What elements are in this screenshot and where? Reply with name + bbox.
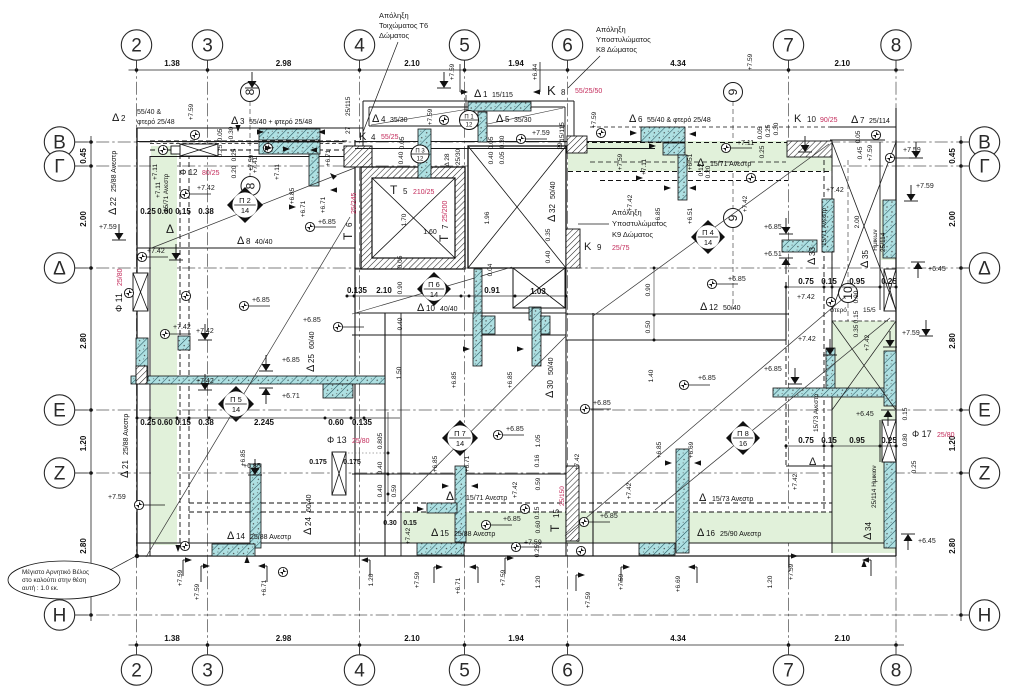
svg-text:+7.42: +7.42 (173, 324, 191, 331)
svg-text:+6.85: +6.85 (507, 371, 514, 388)
svg-text:0.35: 0.35 (853, 324, 860, 337)
svg-text:+7.42: +7.42 (196, 378, 214, 385)
level flag bottom (258, 563, 267, 582)
slab diagonal through Π8 (655, 318, 890, 510)
svg-text:+7.42: +7.42 (627, 194, 634, 211)
svg-text:+6.45: +6.45 (928, 266, 946, 273)
svg-text:+7.42: +7.42 (798, 336, 816, 343)
svg-text:+7.42: +7.42 (197, 185, 215, 192)
column label K4 (359, 131, 399, 143)
svg-text:+7.11: +7.11 (152, 164, 159, 180)
dim 0.175 pair (309, 459, 361, 466)
building outline left wall (136, 128, 138, 556)
corridor line y314 (566, 313, 789, 315)
svg-text:0.05: 0.05 (757, 126, 764, 139)
svg-text:25/80: 25/80 (352, 438, 370, 445)
svg-text:0.40: 0.40 (545, 250, 552, 263)
svg-text:14: 14 (241, 206, 249, 215)
svg-text:+6.85: +6.85 (600, 513, 618, 520)
svg-text:0.60: 0.60 (328, 418, 344, 427)
level marker +6.85 flag right (764, 366, 802, 384)
beam label Δ32 rot (546, 181, 558, 222)
svg-text:0.15: 0.15 (821, 277, 837, 286)
concrete column strip x473 (473, 313, 482, 366)
svg-text:25/88 Ανεστρ: 25/88 Ανεστρ (123, 414, 130, 455)
svg-text:15/71 Ανεστρ: 15/71 Ανεστρ (466, 495, 507, 502)
svg-text:+7.59: +7.59 (414, 571, 421, 588)
beam label Δ5 (496, 113, 532, 125)
svg-text:+7.42: +7.42 (792, 473, 799, 490)
svg-text:0.40: 0.40 (398, 151, 405, 164)
svg-text:0.40: 0.40 (377, 461, 384, 474)
svg-text:9: 9 (726, 88, 740, 95)
column piece solid top-left (171, 146, 180, 154)
svg-text:+6.71: +6.71 (464, 455, 471, 472)
svg-text:5: 5 (459, 661, 470, 682)
svg-text:0.90: 0.90 (645, 283, 652, 296)
svg-text:0.75: 0.75 (798, 277, 814, 286)
dimension line right (948, 136, 963, 621)
level point (181, 291, 190, 300)
svg-text:Ζ: Ζ (979, 464, 991, 485)
svg-text:+6.85: +6.85 (303, 317, 321, 324)
svg-text:15/73 Ανεστρ: 15/73 Ανεστρ (712, 496, 753, 503)
svg-text:0.25: 0.25 (911, 460, 918, 473)
concrete column block bottom wall left (212, 544, 255, 556)
slab symbol Π5 (218, 386, 254, 422)
svg-text:25/150: 25/150 (559, 486, 566, 506)
svg-text:25: 25 (307, 354, 316, 363)
svg-text:9: 9 (597, 243, 602, 252)
svg-text:Δ: Δ (496, 113, 504, 125)
grid axis 6 (552, 30, 582, 685)
arrow (861, 560, 866, 567)
top band line y156 (150, 156, 344, 158)
concrete column strip x822 (822, 199, 834, 252)
svg-text:25/245: 25/245 (351, 192, 358, 214)
svg-text:+6.51: +6.51 (687, 153, 694, 170)
bottom wall inner line (136, 542, 896, 544)
svg-text:0.25: 0.25 (140, 207, 156, 216)
level marker +7.11 (721, 140, 754, 153)
svg-text:14: 14 (704, 238, 712, 247)
slab symbol Π2 (227, 187, 263, 223)
column hatched x136 y366 (136, 366, 147, 384)
svg-text:25/114: 25/114 (869, 118, 890, 125)
svg-text:+6.85: +6.85 (289, 187, 296, 204)
wall line y334 (352, 334, 566, 336)
svg-text:Ε: Ε (978, 401, 991, 422)
column label Φ12 (180, 168, 220, 177)
beam label Δ7 (851, 114, 890, 126)
slab diagonal left big (146, 217, 350, 557)
svg-text:0.75: 0.75 (798, 436, 814, 445)
level marker +7.42 right (798, 136, 844, 194)
svg-text:0.25: 0.25 (881, 436, 897, 445)
svg-text:0.40: 0.40 (488, 151, 495, 164)
arrow (471, 483, 478, 488)
concrete column piece top-left band upper (259, 129, 320, 140)
svg-text:Κ: Κ (547, 83, 556, 98)
svg-text:15: 15 (552, 509, 561, 518)
level marker +6.85 (580, 400, 611, 414)
svg-text:14: 14 (236, 532, 245, 541)
svg-text:Δ: Δ (862, 532, 874, 540)
svg-text:+7.59: +7.59 (108, 494, 126, 501)
svg-text:0.30: 0.30 (499, 135, 506, 148)
svg-text:12: 12 (466, 123, 473, 129)
dim 0.30 0.15 (383, 520, 417, 527)
svg-text:0.15: 0.15 (902, 407, 909, 420)
arrow (461, 89, 468, 94)
level marker +6.85 (493, 426, 524, 440)
arrow (664, 185, 671, 190)
svg-text:Δ: Δ (112, 112, 120, 124)
concrete column piece right upper (883, 200, 896, 258)
svg-text:3: 3 (240, 117, 245, 126)
wall x880 vertical lower (879, 420, 881, 462)
dim line y287 right (785, 286, 898, 289)
level flag bottom (183, 557, 192, 576)
column K9 hatched (566, 229, 580, 268)
svg-text:0.25: 0.25 (765, 124, 772, 137)
svg-text:25/115: 25/115 (345, 96, 352, 116)
beam label Δ21 rot (119, 414, 131, 478)
svg-text:Π 2: Π 2 (239, 196, 251, 205)
grid axis 2 (121, 30, 151, 685)
concrete column piece top-left band lower (259, 142, 320, 154)
elevator shaft interior (372, 178, 455, 258)
beam label Δ15/71 mid (446, 489, 507, 503)
svg-text:4: 4 (371, 133, 376, 142)
svg-text:Π 8: Π 8 (737, 429, 749, 438)
svg-text:Γ: Γ (54, 157, 64, 178)
svg-text:14: 14 (456, 439, 464, 448)
concrete column strip x826 y348 (826, 348, 835, 388)
svg-text:15: 15 (440, 529, 449, 538)
svg-text:1.05: 1.05 (535, 434, 542, 447)
arrow (318, 129, 325, 134)
svg-text:+7.59: +7.59 (99, 224, 117, 231)
svg-text:Δ: Δ (417, 302, 425, 314)
level flag (245, 72, 259, 88)
svg-text:32: 32 (548, 204, 557, 213)
svg-text:Δ: Δ (474, 88, 482, 100)
svg-text:Π 1: Π 1 (464, 115, 474, 121)
svg-text:80/25: 80/25 (202, 170, 220, 177)
svg-text:2.80: 2.80 (948, 538, 957, 554)
svg-text:1.03: 1.03 (530, 287, 546, 296)
svg-text:35/30: 35/30 (514, 117, 532, 124)
svg-text:25/80: 25/80 (117, 268, 124, 286)
concrete column strip x677 (676, 449, 689, 553)
svg-text:Δ: Δ (227, 530, 235, 542)
secondary axis 9 (724, 83, 743, 311)
svg-text:1.20: 1.20 (368, 573, 375, 586)
column K3 hatched top (344, 146, 372, 167)
svg-text:2.10: 2.10 (376, 286, 392, 295)
beam label Δ15/73 (699, 492, 753, 504)
svg-text:+6.85: +6.85 (451, 371, 458, 388)
svg-text:Δ: Δ (629, 113, 637, 125)
svg-text:25/30: 25/30 (455, 148, 462, 165)
svg-text:90/25: 90/25 (820, 117, 838, 124)
svg-text:Δ: Δ (851, 114, 859, 126)
svg-text:+6.51: +6.51 (764, 251, 782, 258)
level marker +6.85 (679, 375, 715, 390)
svg-text:4.34: 4.34 (670, 634, 686, 643)
wall piece below core (355, 268, 465, 270)
level point (263, 143, 272, 152)
svg-text:+7.42: +7.42 (742, 195, 749, 212)
svg-text:25/200: 25/200 (442, 200, 449, 222)
svg-text:+6.71: +6.71 (455, 577, 462, 594)
svg-text:+7.42: +7.42 (196, 328, 214, 335)
wall line x580 (577, 466, 579, 542)
svg-text:2.80: 2.80 (948, 333, 957, 349)
column Φ22 top-left (180, 144, 218, 156)
svg-text:15/5: 15/5 (863, 307, 876, 314)
svg-text:Φ 17: Φ 17 (912, 429, 932, 439)
svg-text:Κ9 Δώματος: Κ9 Δώματος (612, 230, 653, 239)
svg-text:6: 6 (562, 36, 573, 57)
concrete column strip right x884 upper (884, 351, 896, 406)
svg-text:25/114 Ημικιον: 25/114 Ημικιον (871, 465, 878, 508)
arrow (289, 204, 296, 209)
level flag right B (871, 130, 920, 162)
svg-text:0.05: 0.05 (217, 128, 224, 141)
svg-text:Δ: Δ (978, 259, 991, 280)
svg-text:+7.59: +7.59 (585, 591, 592, 608)
level marker +6.85 (303, 317, 364, 332)
svg-text:5: 5 (505, 115, 510, 124)
beam Δ15/71 dashed bottom (189, 503, 832, 512)
svg-text:Π 6: Π 6 (428, 280, 440, 289)
svg-text:0.45: 0.45 (857, 146, 864, 159)
green wall zone right upper (881, 200, 896, 260)
svg-text:0.05: 0.05 (399, 136, 406, 149)
concrete column piece in green (663, 143, 685, 155)
level point (576, 546, 585, 555)
arrow (694, 460, 701, 465)
concrete column piece below core (474, 269, 482, 314)
svg-text:+6.69: +6.69 (688, 441, 695, 458)
svg-text:+6.71: +6.71 (325, 149, 332, 166)
svg-text:Γ: Γ (979, 157, 989, 178)
callout ellipse deflection note (8, 554, 139, 599)
building top edge right part (830, 139, 885, 141)
svg-text:Δ: Δ (166, 222, 174, 236)
arrow (463, 346, 470, 351)
arrow (330, 187, 337, 192)
svg-text:+6.85: +6.85 (252, 297, 270, 304)
svg-text:+7.42: +7.42 (626, 482, 633, 499)
svg-text:16: 16 (706, 529, 715, 538)
level point (596, 128, 605, 137)
column label Φ13 (327, 435, 370, 445)
grid axis Η (44, 600, 999, 630)
beam label Δ10 (417, 302, 458, 314)
concrete column strip x250 (250, 464, 261, 548)
dim vline x388 (387, 412, 390, 502)
svg-text:0.60: 0.60 (157, 418, 173, 427)
svg-text:29: 29 (557, 142, 564, 150)
svg-text:2.00: 2.00 (948, 211, 957, 227)
level marker +6.85 (481, 516, 520, 530)
level flag +7.42 left2 (196, 324, 214, 340)
svg-text:Δ: Δ (700, 301, 708, 313)
svg-text:0.175: 0.175 (343, 459, 361, 466)
level point (278, 567, 287, 576)
svg-text:35/30: 35/30 (390, 117, 408, 124)
svg-text:27: 27 (345, 126, 352, 134)
svg-text:+7.59: +7.59 (532, 130, 550, 137)
arrow (636, 175, 643, 180)
svg-text:0.38: 0.38 (198, 418, 214, 427)
svg-text:0.12: 0.12 (698, 163, 705, 176)
X brace small right (832, 321, 896, 410)
svg-text:Δ: Δ (305, 364, 317, 372)
column label Φ11 rot (114, 268, 124, 312)
svg-text:40/40: 40/40 (255, 239, 273, 246)
svg-text:Δ: Δ (546, 214, 558, 222)
svg-text:+7.11: +7.11 (737, 140, 754, 147)
svg-text:0.90: 0.90 (853, 290, 860, 303)
svg-text:Δώματος: Δώματος (379, 31, 410, 40)
svg-text:+6.85: +6.85 (243, 463, 261, 470)
leader +7.59 col5 (460, 64, 464, 92)
svg-text:Ε: Ε (53, 401, 66, 422)
stair well small (513, 268, 565, 308)
wall x587 vertical (592, 313, 594, 556)
svg-text:+6.85: +6.85 (318, 219, 336, 226)
slab diagonal below core (352, 267, 512, 314)
beam line y248 (Δ8) (137, 247, 355, 249)
label 25/115 rot K3 (345, 96, 352, 134)
svg-text:Δ: Δ (119, 470, 131, 478)
svg-text:+6.71: +6.71 (282, 393, 300, 400)
svg-text:2.10: 2.10 (404, 634, 420, 643)
grid axis Γ (44, 151, 999, 181)
concrete column tail x678 (678, 155, 687, 200)
svg-text:0.135: 0.135 (347, 286, 368, 295)
svg-text:Τοιχώματος Τ6: Τοιχώματος Τ6 (379, 21, 428, 30)
svg-text:Απόληξη: Απόληξη (379, 11, 409, 20)
svg-text:0.91: 0.91 (484, 286, 500, 295)
svg-text:αυτή : 1.0 εκ.: αυτή : 1.0 εκ. (22, 585, 59, 592)
concrete column piece x529 (529, 307, 541, 320)
svg-text:55/25: 55/25 (381, 134, 399, 141)
beam label Δ22 rot (107, 151, 119, 215)
level marker +6.85 x255 (243, 459, 262, 475)
svg-text:1.94: 1.94 (508, 59, 524, 68)
svg-text:7: 7 (441, 224, 450, 229)
svg-text:+7.59: +7.59 (916, 183, 934, 190)
grid axis 3 (192, 30, 222, 685)
arrow (689, 185, 696, 190)
column label K8 (547, 83, 602, 98)
wall x832 vertical (831, 142, 833, 553)
svg-text:2.98: 2.98 (276, 59, 292, 68)
beam label Δ1 (474, 88, 513, 100)
level flag (169, 244, 183, 260)
level marker +6.85/+6.51 right (764, 218, 793, 274)
level flag bottom (505, 555, 514, 574)
wall label T5 (390, 183, 435, 197)
svg-text:Π 4: Π 4 (702, 228, 714, 237)
level flag bottom (434, 564, 443, 583)
level flag bottom (576, 572, 585, 591)
svg-text:10: 10 (807, 115, 816, 124)
svg-text:5: 5 (459, 36, 470, 57)
level marker +7.42 right upper (798, 336, 837, 355)
svg-text:1.70: 1.70 (401, 213, 408, 226)
arrow (649, 143, 656, 148)
svg-text:+6.71: +6.71 (320, 196, 327, 213)
annotation K9 roof (578, 208, 667, 239)
svg-text:+6.85: +6.85 (764, 366, 782, 373)
beam label Δ15 (431, 527, 495, 539)
wall label T15 rot (548, 486, 566, 532)
svg-text:Δ: Δ (544, 390, 556, 398)
svg-text:1.20: 1.20 (79, 435, 88, 451)
level marker +6.85 (305, 219, 336, 232)
svg-text:8: 8 (243, 88, 257, 95)
beam label Δ14 (227, 530, 291, 542)
svg-text:6: 6 (638, 115, 643, 124)
level flag bottom (789, 553, 798, 572)
beam Δ3 dashed top band (150, 141, 350, 150)
level marker +7.59 (516, 130, 549, 144)
level flag up right margin2 (901, 534, 936, 550)
svg-text:1.50: 1.50 (396, 366, 403, 379)
slab diagonal bottom right (565, 296, 846, 536)
svg-text:12: 12 (709, 303, 718, 312)
slab symbol Π4 (691, 220, 725, 254)
level flag bottom (621, 564, 630, 583)
svg-text:+7.42: +7.42 (864, 334, 871, 351)
svg-text:στο καλούπι στην θέση: στο καλούπι στην θέση (22, 576, 87, 584)
svg-text:25/90 Ανεστρ: 25/90 Ανεστρ (720, 531, 761, 538)
beam lower dashed y180 (600, 180, 788, 182)
slab symbol Π1 small (460, 111, 479, 130)
concrete column strip x529b (532, 308, 541, 366)
svg-text:Δ: Δ (699, 492, 707, 504)
grid axis 5 (449, 30, 479, 685)
svg-text:+7.11: +7.11 (155, 182, 162, 198)
svg-text:+7.59: +7.59 (194, 583, 201, 600)
level flag (919, 320, 933, 336)
level marker +7.42 (160, 324, 191, 339)
svg-text:Η: Η (53, 606, 67, 627)
svg-text:Φ 12: Φ 12 (180, 168, 198, 177)
svg-text:2.10: 2.10 (834, 59, 850, 68)
svg-text:+7.42: +7.42 (826, 187, 844, 194)
svg-text:15/71 Ανεστρ: 15/71 Ανεστρ (821, 207, 828, 246)
level flag bottom (862, 557, 871, 576)
svg-text:+7.59: +7.59 (449, 63, 456, 80)
svg-text:+6.85: +6.85 (728, 276, 746, 283)
svg-text:0.59: 0.59 (535, 477, 542, 490)
svg-text:7: 7 (783, 661, 794, 682)
right wall top stub (895, 108, 897, 140)
svg-text:Απόληξη: Απόληξη (596, 25, 626, 34)
slab symbol Π8 (726, 421, 760, 455)
svg-text:50/40: 50/40 (548, 357, 555, 375)
level marker +7.59 (108, 494, 165, 510)
arrow (257, 129, 264, 134)
svg-text:Δ: Δ (809, 456, 817, 468)
